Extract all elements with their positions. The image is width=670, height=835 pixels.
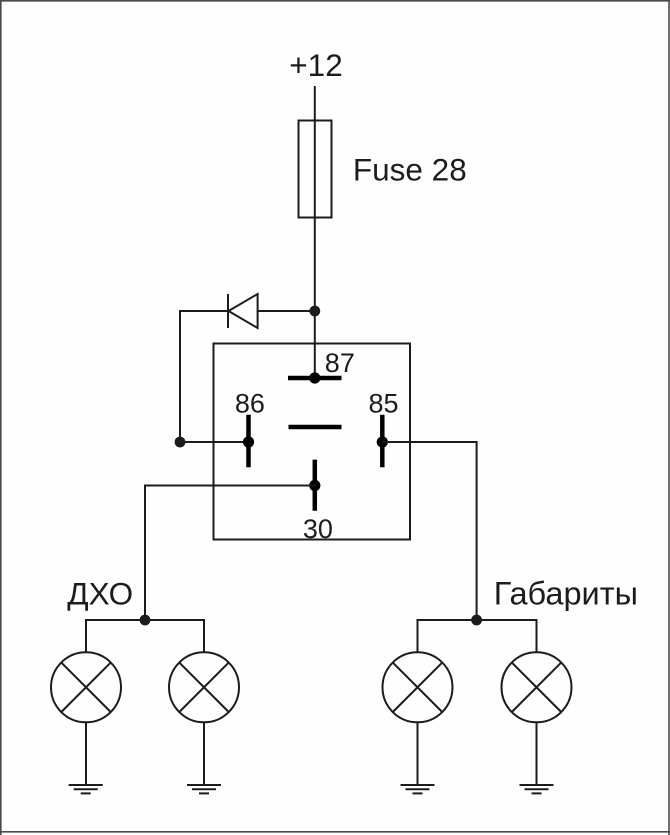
node B (left corner junction) xyxy=(175,437,186,448)
pin 85 dot xyxy=(377,436,388,447)
wire: HL4 to ground xyxy=(536,722,538,785)
node D (parking lights junction) xyxy=(471,615,482,626)
pin 87 bar xyxy=(288,376,342,381)
wire: node B to pin 86 xyxy=(180,441,249,443)
lamp HL2 xyxy=(169,652,239,722)
pin 30 bar xyxy=(313,460,318,511)
wire: node A left to diode cathode xyxy=(258,310,315,312)
ground for HL4 xyxy=(520,785,554,793)
ground for HL1 xyxy=(69,785,103,793)
pin 30 dot xyxy=(309,480,320,491)
wire: pin 85 right and down to node D xyxy=(382,442,476,620)
lamp HL1 xyxy=(51,652,121,722)
node C (DRL junction) xyxy=(140,615,151,626)
wire: pin 30 left and down to node C xyxy=(145,486,315,621)
wire: diode anode side to left, down to node B xyxy=(180,311,228,442)
pin 87 junction dot xyxy=(309,372,320,383)
wire: +12 to fuse and through to node A xyxy=(314,86,316,311)
lamp HL3 xyxy=(383,652,453,722)
svg-text:ДХО: ДХО xyxy=(67,576,133,612)
pin 86 dot xyxy=(243,436,254,447)
svg-text:85: 85 xyxy=(369,388,399,418)
wire: node A down to pin 87 xyxy=(314,311,316,378)
relay contact bar xyxy=(289,425,342,430)
wire: HL1 to ground xyxy=(85,722,87,785)
wire: HL3 to ground xyxy=(417,722,419,785)
pin 85 bar xyxy=(380,415,385,468)
svg-text:Fuse 28: Fuse 28 xyxy=(353,152,467,188)
ground for HL2 xyxy=(187,785,221,793)
svg-text:86: 86 xyxy=(235,388,265,418)
ground for HL3 xyxy=(401,785,435,793)
svg-text:+12: +12 xyxy=(289,47,342,83)
pin 86 bar xyxy=(246,415,251,468)
svg-text:87: 87 xyxy=(325,348,355,378)
svg-text:30: 30 xyxy=(303,514,333,544)
wire: HL2 to ground xyxy=(203,722,205,785)
wire: DRL tee bar xyxy=(86,620,204,652)
fuse F1 body xyxy=(299,121,332,218)
relay K1 box xyxy=(214,344,411,540)
diode VD1 xyxy=(228,294,258,328)
svg-text:Габариты: Габариты xyxy=(494,576,638,612)
lamp HL4 xyxy=(502,652,572,722)
wire: parking tee bar xyxy=(418,620,537,652)
node A (junction above relay) xyxy=(309,306,320,317)
